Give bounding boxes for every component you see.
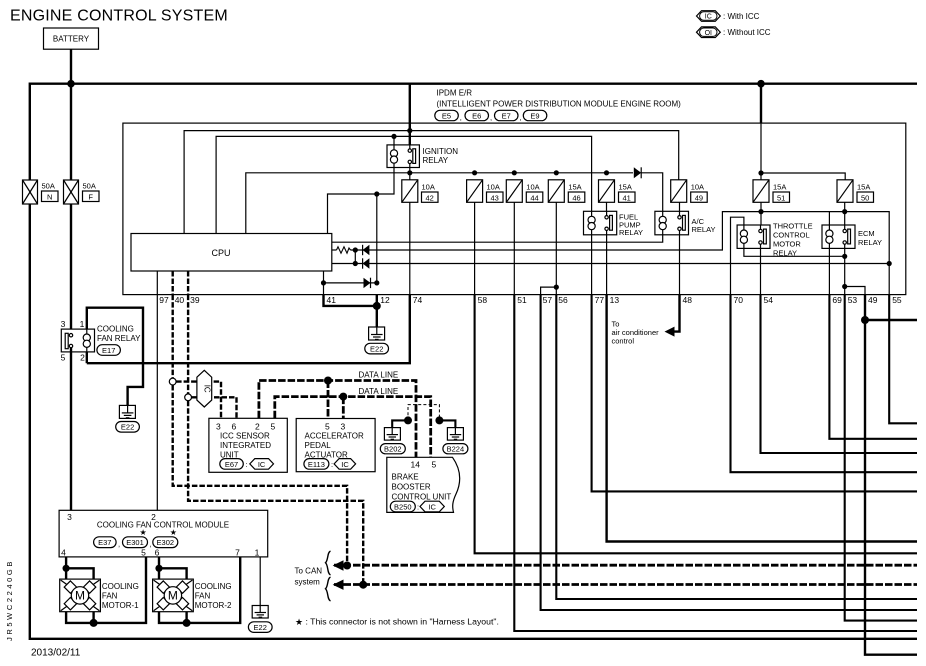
svg-text:: With ICC: : With ICC — [723, 12, 760, 21]
wire module pin4 to motor1 — [65, 557, 67, 579]
diode D4 — [364, 278, 371, 288]
node ECM contact join — [842, 254, 847, 259]
diode D1 on bus — [634, 167, 641, 178]
node bus fuse42 — [407, 170, 412, 175]
wire pin58 down and right — [475, 295, 917, 554]
svg-text:IC: IC — [705, 14, 712, 21]
ground B224 — [443, 428, 468, 454]
wire motor2 bottom to module pin7 — [159, 557, 240, 623]
wire fuse51 junction — [760, 202, 762, 225]
svg-text:44: 44 — [530, 193, 538, 202]
svg-text:★: ★ — [140, 528, 147, 537]
wire module pin1 to ground — [259, 557, 261, 606]
svg-text:50: 50 — [861, 193, 869, 202]
svg-text:E7: E7 — [502, 111, 511, 120]
ECM relay K4 — [822, 225, 855, 248]
fusible link N — [23, 180, 59, 204]
ground B202 — [380, 428, 405, 454]
node shield B202 — [404, 416, 412, 424]
svg-text:57: 57 — [543, 295, 553, 305]
accelerator pedal actuator box — [296, 419, 375, 472]
wire pin49 branch to edge — [865, 319, 917, 321]
svg-text:DATA LINE: DATA LINE — [359, 387, 399, 396]
link L2-L3 — [354, 250, 356, 264]
ICC sensor integrated unit box — [209, 418, 287, 472]
svg-text:B250: B250 — [394, 502, 412, 511]
svg-text:ENGINE CONTROL SYSTEM: ENGINE CONTROL SYSTEM — [10, 8, 228, 25]
brace CAN2 — [326, 577, 331, 601]
wire L2 : resistor to diode to fuse51 sense — [351, 212, 762, 250]
fuse 46 — [548, 180, 585, 203]
node shield B224 — [435, 416, 443, 424]
wire CPU pin40 dashed — [171, 271, 173, 295]
connector E5 — [435, 110, 459, 120]
wire fuse F down to cooling fan relay contact — [70, 204, 72, 334]
svg-text:55: 55 — [892, 295, 902, 305]
fuse42 to pin74 — [409, 202, 411, 294]
svg-text:10A: 10A — [691, 183, 704, 192]
svg-text:46: 46 — [572, 193, 580, 202]
wire APA pin5 riser — [327, 381, 330, 419]
connector E17 — [97, 345, 121, 356]
wire fuse51/50 top bus to pin 55 — [761, 212, 889, 295]
wire contact pin5 to module pin3 — [70, 348, 72, 511]
wire pin12 below — [376, 295, 378, 327]
wire pin70 down and right — [731, 295, 918, 473]
fuse 41 — [599, 180, 636, 203]
fuel pump relay K1 — [584, 211, 617, 235]
CPU box — [131, 234, 332, 272]
wire ECM contact down pin53 — [844, 248, 846, 294]
wire L1 : CPU to A/C relay coil — [332, 235, 663, 242]
node fuse50 branch — [758, 170, 763, 175]
ground E22 (cooling fan relay) — [116, 405, 140, 432]
wire coil pin1 loop feed to ground — [87, 308, 143, 406]
connector E6 — [465, 110, 489, 120]
wire bus to fuse51/50 — [760, 84, 762, 123]
CAN line 1 dashed — [334, 564, 917, 567]
node pin41/12 join — [373, 302, 381, 310]
wire pin74 to cooling fan relay — [87, 295, 410, 364]
svg-text:51: 51 — [517, 295, 527, 305]
svg-text:E37: E37 — [98, 538, 111, 547]
module bottom pin labels — [61, 547, 260, 557]
node pin49 branch right — [861, 316, 869, 324]
wire branch to pin 49 — [845, 287, 865, 295]
ground E22 (pin12) — [365, 327, 389, 354]
svg-text:E17: E17 — [102, 346, 115, 355]
wire ignition coil top stub — [393, 136, 395, 145]
svg-text:E5: E5 — [442, 111, 451, 120]
wire L3 : CPU to pin 55 line — [332, 263, 889, 265]
svg-text:49: 49 — [868, 295, 878, 305]
svg-text:JR5WC2240GB: JR5WC2240GB — [5, 559, 14, 641]
diode D3 — [363, 258, 370, 268]
A/C relay K2 — [655, 211, 689, 235]
svg-text:COOLING FAN CONTROL MODULE: COOLING FAN CONTROL MODULE — [97, 521, 229, 530]
svg-text:2: 2 — [80, 353, 85, 363]
brake booster control unit box — [387, 457, 460, 512]
cooling fan control module box — [59, 510, 268, 557]
node bus right junction — [757, 80, 765, 88]
A/C contact to pin 48 — [679, 235, 681, 295]
svg-text:E22: E22 — [121, 423, 134, 432]
connector E37 — [94, 537, 117, 548]
wire pin54 down and right — [761, 295, 918, 453]
node motor1 top — [63, 565, 70, 572]
node pins 56/57 join — [554, 285, 559, 290]
wire pin40 dashed down — [171, 295, 173, 379]
svg-text:5: 5 — [141, 547, 146, 557]
fuse 42 — [402, 180, 438, 203]
wire pin55 down and right — [889, 295, 917, 424]
svg-text:69: 69 — [832, 295, 842, 305]
cooling fan relay K5 — [61, 329, 94, 352]
CAN line 2 dashed — [334, 583, 917, 586]
cooling fan motor-2 M2 — [153, 579, 194, 612]
IC hexagon E113 — [334, 459, 356, 470]
wire pin57 down and right — [541, 295, 917, 610]
svg-text:15A: 15A — [619, 183, 632, 192]
wire throttle coil bottom to ECM contact line — [744, 248, 845, 256]
throttle control motor relay K3 — [737, 225, 770, 248]
connector B250 — [390, 501, 415, 512]
svg-text:,: , — [118, 540, 120, 549]
brace CAN1 — [326, 551, 331, 575]
svg-text::: : — [246, 460, 248, 469]
wire pin51 down and right — [514, 295, 917, 631]
IC hexagon E67 — [250, 459, 274, 470]
node bus fuse43 — [472, 170, 477, 175]
wire CPU bottom to pin 41 — [323, 271, 325, 295]
fuse46 down — [555, 202, 557, 294]
svg-text:: This connector is not shown: : This connector is not shown in "Harnes… — [306, 617, 499, 627]
svg-text:(INTELLIGENT POWER DISTRIBUTIO: (INTELLIGENT POWER DISTRIBUTION MODULE E… — [437, 100, 682, 109]
svg-text:4: 4 — [61, 547, 66, 557]
svg-text:97: 97 — [159, 295, 169, 305]
wire pin13 down and right — [607, 295, 917, 542]
wire motor1 right lead — [92, 612, 94, 623]
svg-text:E302: E302 — [157, 538, 175, 547]
fuse44 to pin51 — [513, 202, 515, 294]
node fuse51 out — [758, 209, 763, 214]
IC hexagon (harness) — [197, 370, 212, 407]
svg-text:N: N — [47, 192, 52, 201]
wire bus to fuse F — [70, 84, 72, 180]
svg-text:48: 48 — [683, 295, 693, 305]
svg-text:77: 77 — [595, 295, 605, 305]
svg-text:70: 70 — [734, 295, 744, 305]
node bus fuse46 — [554, 170, 559, 175]
svg-text:E113: E113 — [308, 460, 325, 469]
node fuse50 out — [842, 209, 847, 214]
fuse 43 — [467, 180, 503, 203]
svg-text:41: 41 — [623, 193, 631, 202]
node wire D pin12 branch — [374, 191, 379, 196]
wire coil pin2 to pin74 wire — [86, 352, 88, 363]
svg-text:12: 12 — [380, 295, 390, 305]
wire ignition contact to bus — [409, 168, 411, 180]
wire motor1 bottom to module pin5 — [66, 557, 146, 623]
node CAN2 — [359, 581, 367, 589]
svg-text:,: , — [520, 113, 522, 122]
node battery junction — [67, 80, 75, 88]
svg-text:54: 54 — [764, 295, 774, 305]
wire battery thick drop to ignition relay — [409, 84, 411, 145]
svg-text:OI: OI — [705, 30, 712, 37]
svg-text:: Without ICC: : Without ICC — [723, 28, 771, 37]
svg-text:B224: B224 — [447, 445, 465, 454]
svg-text:IC: IC — [341, 460, 349, 469]
wire battery bus — [30, 84, 917, 180]
resistor R1 — [332, 247, 351, 253]
wire pin56 down and right — [556, 295, 917, 599]
connector E67 — [220, 459, 244, 470]
connector circle pin40 — [169, 378, 176, 385]
wire ECM coil to pin 69 — [828, 248, 830, 294]
node bus fuse41 — [604, 170, 609, 175]
arrow CAN1 — [333, 560, 344, 570]
wire to fuse50 top — [761, 173, 845, 180]
svg-text:DATA LINE: DATA LINE — [359, 371, 399, 380]
wire to B224 ground — [439, 420, 455, 427]
wire battery drop — [70, 49, 72, 83]
svg-text:3: 3 — [67, 512, 72, 522]
arrow CAN2 — [333, 580, 344, 590]
svg-text:★: ★ — [295, 617, 303, 627]
legend OI hexagon — [697, 27, 771, 38]
wire circle40 to ICC pin3 — [176, 382, 221, 419]
wire pin39 dashed down — [187, 295, 189, 394]
svg-text:E9: E9 — [530, 111, 539, 120]
svg-text:10A: 10A — [422, 183, 435, 192]
wire pin41 below — [324, 295, 377, 306]
fusible link F — [64, 180, 100, 204]
wire pin57 stub — [541, 287, 557, 295]
diode D2 — [363, 245, 370, 255]
wire pin77 down and right — [592, 295, 917, 492]
wire APA pin3 riser — [342, 397, 345, 419]
svg-text:B202: B202 — [384, 445, 402, 454]
svg-text:BATTERY: BATTERY — [53, 35, 90, 44]
node L4 right — [374, 280, 379, 285]
svg-text:15A: 15A — [773, 183, 786, 192]
svg-text:13: 13 — [610, 295, 620, 305]
svg-text:51: 51 — [777, 193, 785, 202]
svg-text:6: 6 — [155, 547, 160, 557]
wire fuse50 to ECM contact — [844, 202, 846, 225]
svg-text:E6: E6 — [472, 111, 481, 120]
svg-text:IPDM E/R: IPDM E/R — [437, 89, 473, 98]
svg-text:2013/02/11: 2013/02/11 — [31, 648, 81, 659]
wire A : CPU to battery line and fuse 49 — [184, 131, 679, 234]
fuse 49 — [671, 180, 708, 203]
wire motor1 top link — [66, 568, 94, 579]
ground E22 (module) — [248, 606, 272, 633]
svg-text:74: 74 — [413, 295, 423, 305]
wire pin53 down and right — [845, 295, 917, 621]
battery B1 — [44, 28, 99, 49]
wire to B202 ground — [392, 420, 408, 427]
wire L4 with diode to pin12 — [324, 282, 377, 284]
node CAN1 — [343, 562, 351, 570]
wire CPU pin97 — [156, 271, 158, 295]
svg-text:53: 53 — [848, 295, 858, 305]
svg-text:39: 39 — [190, 295, 200, 305]
svg-text:E67: E67 — [225, 460, 238, 469]
wire B : CPU to ignition relay coil and fuel pump relay coil — [216, 136, 591, 233]
svg-text:IC: IC — [258, 460, 266, 469]
node pin49 branch — [842, 284, 847, 289]
wire pin12 vertical upper — [376, 194, 378, 283]
svg-text:F: F — [88, 192, 93, 201]
node L3 to pin55 — [887, 261, 892, 266]
svg-text::: : — [417, 503, 419, 512]
wire module pin6 to motor2 — [158, 557, 160, 579]
fuse49 to A/C contact — [679, 202, 681, 211]
svg-text:1: 1 — [255, 547, 260, 557]
wire ECM coil feed stub — [828, 212, 830, 225]
svg-text:49: 49 — [695, 193, 703, 202]
svg-text:M: M — [168, 589, 178, 603]
wire ICC pin2 to data line 1 — [259, 381, 416, 458]
node motor2 bottom — [183, 619, 191, 627]
svg-text:41: 41 — [327, 295, 337, 305]
fuse41 to fuel pump contact — [606, 202, 608, 211]
svg-text:E22: E22 — [370, 345, 383, 354]
svg-text:,: , — [460, 113, 462, 122]
svg-text:,: , — [150, 540, 152, 549]
shield dashed arch — [408, 405, 439, 421]
svg-text:50A: 50A — [83, 182, 96, 191]
wire pin97 to module pin2 — [156, 295, 158, 511]
wire bus diode to A/C relay coil — [641, 173, 663, 212]
connector circle pin39 — [185, 394, 192, 401]
svg-text:★: ★ — [170, 528, 177, 537]
svg-text:3: 3 — [61, 319, 66, 329]
wire motor2 right lead — [185, 612, 187, 623]
IC hexagon B250 — [420, 501, 444, 512]
fuse43 to pin58 — [474, 202, 476, 294]
node bus fuse44 — [512, 170, 517, 175]
wire D : ignition coil bottom to CPU and pin12 — [328, 168, 395, 234]
svg-text:15A: 15A — [857, 183, 870, 192]
connector E7 — [495, 110, 519, 120]
svg-text:10A: 10A — [487, 183, 500, 192]
fuel pump contact to pin 13 — [606, 235, 608, 295]
wire throttle coil top to pin 70 — [731, 217, 744, 294]
svg-text:M: M — [75, 589, 85, 603]
cooling fan relay pin labels — [61, 319, 86, 363]
fuel pump coil to pin 77 — [591, 235, 593, 295]
svg-text:15A: 15A — [568, 183, 581, 192]
IPDM E/R box — [123, 123, 906, 295]
wire circle39 to ICC pin6 — [192, 397, 237, 418]
svg-text:CPU: CPU — [211, 248, 230, 258]
wire throttle contact to pin 54 — [760, 248, 762, 294]
wire CPU pin39 dashed — [187, 271, 189, 295]
connector E302 — [153, 537, 178, 548]
node data2 apa3 — [339, 393, 347, 401]
svg-text:E22: E22 — [254, 623, 267, 632]
node motor2 top — [155, 565, 162, 572]
arrow to air conditioner — [665, 327, 675, 337]
wire fuse N down to bottom bus — [30, 204, 917, 639]
svg-text:5: 5 — [61, 353, 66, 363]
connector E301 — [123, 537, 148, 548]
fuse 51 — [753, 180, 790, 203]
svg-text:43: 43 — [491, 193, 499, 202]
connector E9 — [523, 110, 547, 120]
wire pin49 down and right — [865, 295, 917, 655]
wire pin40 dashed below circle — [173, 385, 347, 566]
svg-text:1: 1 — [80, 319, 85, 329]
node L2 — [353, 247, 358, 252]
wire pin48 to air conditioner arrow — [673, 295, 680, 332]
ignition relay U1 — [387, 145, 419, 168]
svg-text:10A: 10A — [526, 183, 539, 192]
node L4 left — [321, 280, 326, 285]
svg-text:,: , — [490, 113, 492, 122]
legend IC hexagon — [697, 11, 760, 22]
svg-text:40: 40 — [175, 295, 185, 305]
connector E113 — [304, 459, 329, 470]
fuse 44 — [506, 180, 543, 203]
svg-text:7: 7 — [235, 547, 240, 557]
svg-text:E301: E301 — [126, 538, 144, 547]
cooling fan motor-1 M1 — [60, 579, 101, 612]
node wire B coil tap — [391, 134, 396, 139]
svg-text::: : — [331, 460, 333, 469]
svg-text:42: 42 — [426, 193, 434, 202]
wire ICC pin5 to data line 2 — [275, 397, 431, 458]
wire pin39 dashed below circle — [188, 401, 363, 585]
fuse 50 — [837, 180, 874, 203]
node motor1 bottom — [90, 619, 98, 627]
node data1 apa5 — [324, 377, 332, 385]
wire C : fuse bus to CPU — [246, 173, 633, 234]
svg-text:IC: IC — [202, 385, 211, 393]
svg-text:IC: IC — [428, 502, 436, 511]
svg-text:50A: 50A — [42, 182, 55, 191]
svg-text:56: 56 — [558, 295, 568, 305]
wire motor2 top link — [159, 568, 187, 579]
wire pin69 down and right — [829, 295, 917, 439]
svg-text:58: 58 — [478, 295, 488, 305]
node L3 — [353, 261, 358, 266]
pin labels row — [159, 295, 902, 305]
node wire A battery tap — [407, 128, 412, 133]
